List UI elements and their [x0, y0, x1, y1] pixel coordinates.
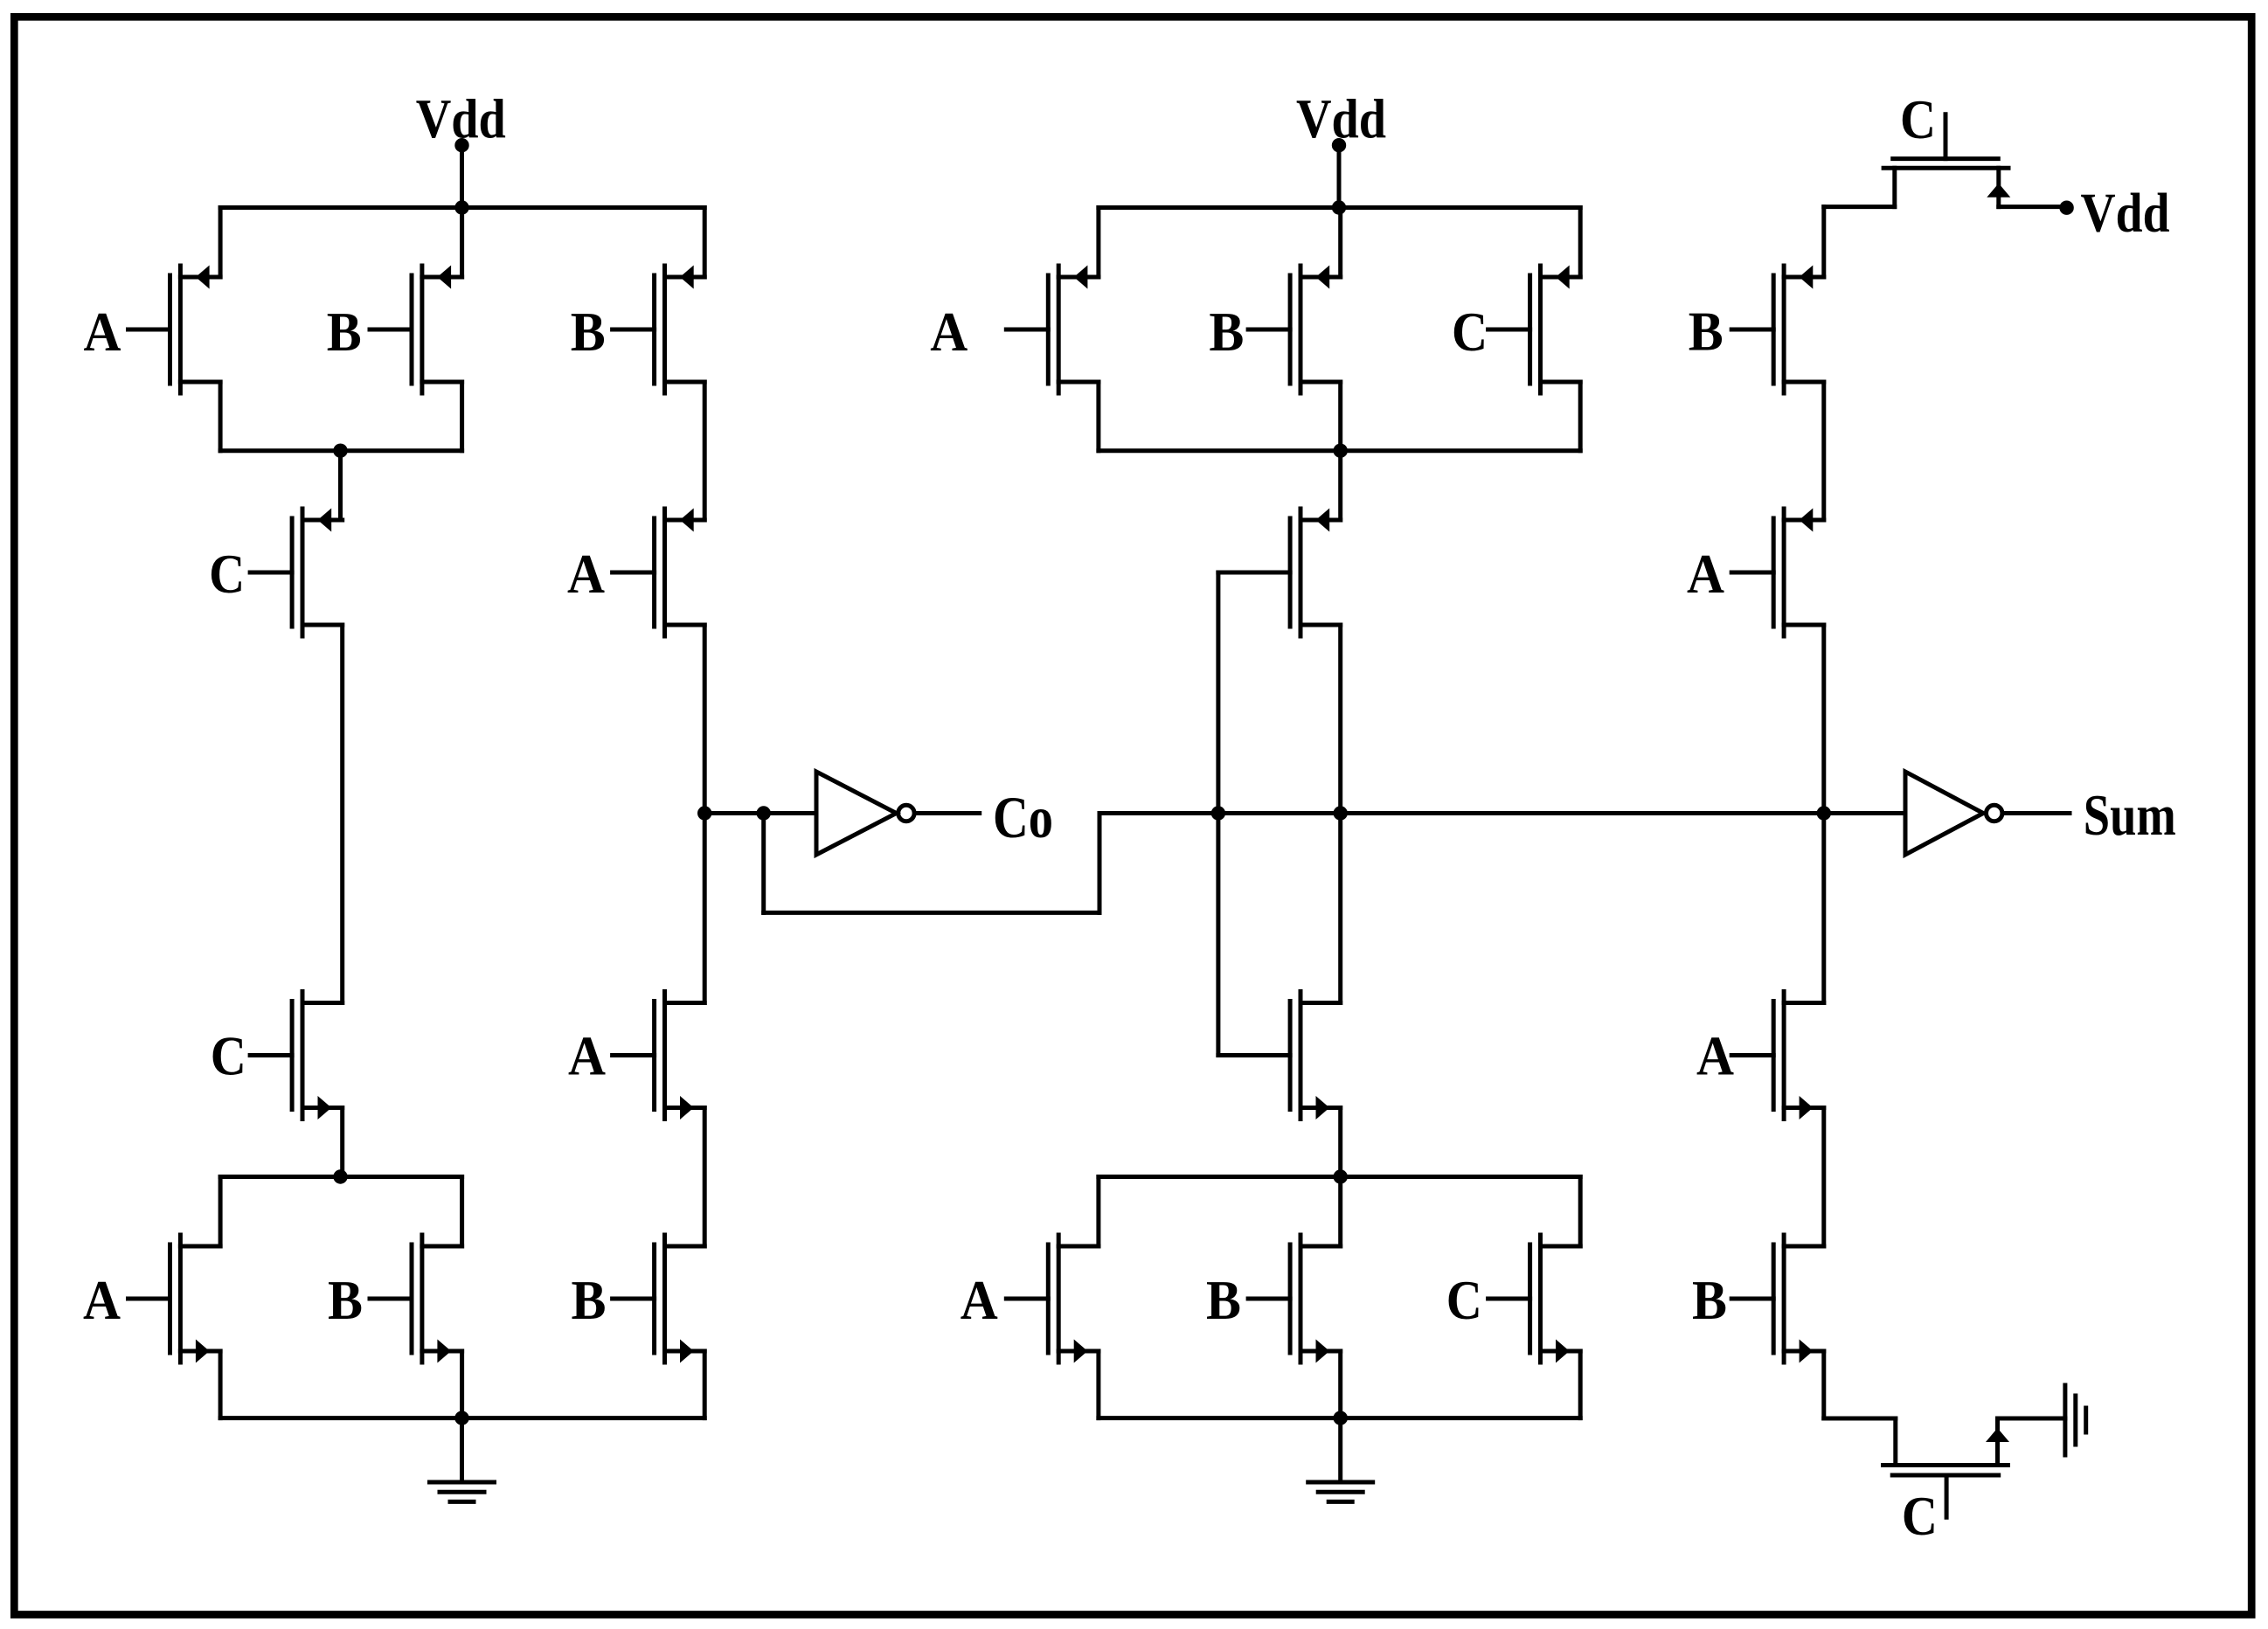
power label Vdd (right): [2081, 182, 2170, 244]
wire U1 output: [916, 811, 980, 815]
wire top Vdd rail (middle block): [1099, 205, 1580, 210]
label B (M2 gate): [327, 301, 362, 363]
wire M20 drain stub down to sum-bar node: [1821, 625, 1826, 814]
node carry-bar horizontal wire: [704, 811, 816, 815]
inverter U2 bubble: [1987, 805, 2002, 821]
transistor PMOS M14 pass (gate from carry-bar): [1218, 509, 1341, 637]
wire M7 source stub to rail: [703, 208, 707, 278]
junction dot NMOS wire (left): [333, 1169, 347, 1183]
svg-text:A: A: [1687, 543, 1724, 605]
svg-text:C: C: [1902, 1485, 1938, 1547]
transistor PMOS M7 gate B (carry column): [613, 266, 705, 394]
wire M3 drain long vertical to M4: [340, 625, 344, 1003]
junction dot Vdd rail (middle block): [1332, 200, 1346, 214]
wire M8 drain to carry-bar node: [703, 625, 707, 814]
svg-text:Vdd: Vdd: [2081, 182, 2170, 244]
svg-text:B: B: [1689, 300, 1724, 362]
transistor NMOS M10 gate B (carry column): [613, 1235, 705, 1363]
svg-text:B: B: [1209, 301, 1244, 363]
label C (M4 gate): [211, 1025, 246, 1087]
svg-text:B: B: [328, 1269, 363, 1331]
wire M5 drain stub to NMOS wire: [218, 1177, 223, 1247]
wire M16 drain stub to NMOS wire: [1096, 1177, 1100, 1247]
wire M11 source stub to rail: [1096, 208, 1100, 278]
transistor NMOS M18 gate C (sum pull-down trio): [1488, 1235, 1581, 1363]
Vdd terminal dot (left block): [454, 138, 468, 152]
wire M6 source stub to bottom rail: [460, 1351, 464, 1418]
label A (M5 gate): [83, 1269, 121, 1331]
wire M19 drain stub to M20: [1821, 382, 1826, 520]
label C (M23 gate): [1900, 88, 1936, 150]
wire top Vdd rail (left block): [220, 205, 704, 210]
svg-text:A: A: [83, 1269, 121, 1331]
Vdd terminal dot (right): [2059, 201, 2073, 215]
wire mid node down to M14: [1338, 451, 1342, 520]
wire M2 drain stub to mid wire: [460, 382, 464, 451]
wire bypass horizontal: [764, 911, 1099, 915]
svg-text:B: B: [571, 301, 606, 363]
wire M4 source stub to NMOS wire: [340, 1108, 344, 1177]
transistor NMOS M21 gate A (sum output column): [1731, 992, 1824, 1120]
wire M5 source stub to bottom rail: [218, 1351, 223, 1418]
label A (M1 gate): [84, 301, 121, 363]
svg-text:A: A: [961, 1269, 998, 1331]
wire M9 drain stub up to node: [703, 814, 707, 1003]
junction dot Vdd rail (left block): [454, 200, 468, 214]
wire M13 drain stub to mid wire: [1578, 382, 1583, 451]
wire M14 drain stub down to node: [1338, 625, 1342, 814]
svg-text:B: B: [572, 1269, 607, 1331]
junction dot carry-bar at column: [697, 806, 711, 820]
inverter U2 (sum) triangle: [1905, 772, 1983, 855]
transistor PMOS M19 gate B (sum output column): [1731, 266, 1824, 394]
wire M9 source stub to M10: [703, 1108, 707, 1247]
svg-text:Sum: Sum: [2084, 783, 2176, 848]
output label Co: [993, 784, 1053, 850]
junction dot mid node (middle block): [1334, 444, 1348, 458]
transistor NMOS M16 gate A (sum pull-down trio): [1006, 1235, 1099, 1363]
wire NMOS upper wire (left block): [220, 1175, 461, 1179]
wire M6 drain stub to NMOS wire: [460, 1177, 464, 1247]
transistor NMOS M4 gate C (carry series): [250, 992, 343, 1120]
svg-text:B: B: [1206, 1269, 1241, 1331]
wire M13 source stub to rail: [1578, 208, 1583, 278]
label A (M9 gate): [568, 1025, 606, 1087]
transistor PMOS M8 gate A (carry column): [613, 509, 705, 637]
transistor NMOS M15 pass (gate from carry-bar): [1218, 992, 1341, 1120]
wire M2 source stub to rail: [460, 208, 464, 278]
wire bottom rail (left block): [220, 1416, 704, 1420]
transistor NMOS M5 gate A (left pull-down pair): [128, 1235, 221, 1363]
wire M23 right lead to Vdd terminal: [1999, 204, 2060, 209]
wire bottom rail (middle block): [1099, 1416, 1580, 1420]
ground symbol (right, rotated): [2065, 1385, 2086, 1455]
svg-text:Co: Co: [993, 784, 1053, 850]
svg-text:C: C: [1900, 88, 1936, 150]
label B (M6 gate): [328, 1269, 363, 1331]
junction dot bottom rail (middle block): [1334, 1411, 1348, 1425]
label A (M20 gate): [1687, 543, 1724, 605]
junction dot sum-bar node: [1817, 806, 1831, 820]
wire mid node of left pull-up pair: [220, 448, 461, 453]
svg-text:C: C: [1446, 1269, 1482, 1331]
svg-text:C: C: [209, 543, 245, 605]
wire M19 source stub up to C-pass elbow: [1821, 207, 1826, 277]
label C (M13 gate): [1452, 301, 1488, 363]
wire M18 drain stub to NMOS wire: [1578, 1177, 1583, 1247]
wire M12 source stub to rail: [1338, 208, 1342, 278]
transistor PMOS M1 gate A (left pull-up pair): [128, 266, 221, 394]
wire mid node down to M3: [338, 451, 343, 520]
transistor NMOS M9 gate A (carry column): [613, 992, 705, 1120]
label C (M3 gate): [209, 543, 245, 605]
transistor PMOS M23 pass gate C (horizontal, to Vdd): [1883, 114, 2010, 207]
wire M17 drain stub to NMOS wire: [1338, 1177, 1342, 1247]
svg-text:A: A: [84, 301, 121, 363]
wire M7 drain stub to M8: [703, 382, 707, 520]
wire M24 right lead to ground: [1998, 1417, 2065, 1421]
wire M23 left lead to column: [1824, 204, 1895, 209]
output label Sum: [2084, 783, 2176, 848]
svg-text:A: A: [568, 1025, 606, 1087]
junction dot mid node (left): [333, 444, 347, 458]
transistor PMOS M2 gate B (left pull-up pair): [370, 266, 462, 394]
label B (M17 gate): [1206, 1269, 1241, 1331]
ground symbol (middle block): [1308, 1418, 1373, 1502]
junction dot carry-bar at inverter tap: [757, 806, 771, 820]
junction dot pass drain at node: [1334, 806, 1348, 820]
svg-text:C: C: [1452, 301, 1488, 363]
transistor NMOS M6 gate B (left pull-down pair): [370, 1235, 462, 1363]
label B (M12 gate): [1209, 301, 1244, 363]
wire M21 drain stub up to sum-bar node: [1821, 814, 1826, 1003]
wire carry-bar line to sum block: [1099, 811, 1905, 815]
label B (M22 gate): [1692, 1269, 1727, 1331]
power label Vdd (left block): [416, 87, 506, 149]
power label Vdd (middle block): [1296, 87, 1386, 149]
transistor PMOS M3 gate C (carry series): [250, 509, 343, 637]
label B (M10 gate): [572, 1269, 607, 1331]
wire Vdd to top rail (left block): [460, 145, 464, 207]
wire U2 output: [2005, 811, 2070, 815]
inverter U1 bubble: [898, 805, 914, 821]
inverter U1 (carry) triangle: [816, 772, 897, 855]
wire pass gates vertical: [1216, 572, 1220, 1056]
label A (M16 gate): [961, 1269, 998, 1331]
wire M16 source stub to bottom rail: [1096, 1351, 1100, 1418]
label C (M24 gate): [1902, 1485, 1938, 1547]
wire M10 source stub to bottom rail: [703, 1351, 707, 1418]
wire M18 source stub to bottom rail: [1578, 1351, 1583, 1418]
wire bypass down from node: [761, 814, 766, 913]
wire Vdd to top rail (middle block): [1337, 145, 1342, 207]
label B (M7 gate): [571, 301, 606, 363]
wire NMOS upper wire (middle block): [1099, 1175, 1580, 1179]
junction dot bottom rail (left): [454, 1411, 468, 1425]
label B (M19 gate): [1689, 300, 1724, 362]
wire M22 source stub down to staircase: [1821, 1351, 1826, 1418]
label A (M8 gate): [567, 543, 605, 605]
wire M12 drain stub to mid wire: [1338, 382, 1342, 451]
wire M1 source stub to rail: [218, 208, 223, 278]
wire M21 source stub to M22: [1821, 1108, 1826, 1247]
wire mid node (middle block): [1099, 448, 1580, 453]
transistor NMOS M24 pass gate C (horizontal, to ground): [1883, 1418, 2010, 1517]
wire M17 source stub to bottom rail: [1338, 1351, 1342, 1418]
label C (M18 gate): [1446, 1269, 1482, 1331]
wire M15 drain stub up to node: [1338, 814, 1342, 1003]
svg-text:A: A: [567, 543, 605, 605]
wire M11 drain stub to mid wire: [1096, 382, 1100, 451]
transistor NMOS M17 gate B (sum pull-down trio): [1248, 1235, 1341, 1363]
junction dot pass gate at node: [1211, 806, 1225, 820]
svg-text:A: A: [930, 301, 968, 363]
transistor PMOS M11 gate A (sum pull-up trio): [1006, 266, 1099, 394]
svg-text:B: B: [327, 301, 362, 363]
wire M15 source stub to NMOS wire: [1338, 1108, 1342, 1177]
Vdd terminal dot (middle block): [1332, 138, 1346, 152]
transistor PMOS M13 gate C (sum pull-up trio): [1488, 266, 1581, 394]
ground symbol (left block): [430, 1418, 495, 1502]
label A (M11 gate): [930, 301, 968, 363]
transistor NMOS M22 gate B (sum output column): [1731, 1235, 1824, 1363]
svg-text:C: C: [211, 1025, 246, 1087]
junction dot NMOS wire (middle block): [1334, 1169, 1348, 1183]
svg-text:A: A: [1696, 1025, 1734, 1087]
transistor PMOS M20 gate A (sum output column): [1731, 509, 1824, 637]
label A (M21 gate): [1696, 1025, 1734, 1087]
wire staircase horizontal to M24: [1824, 1417, 1896, 1421]
wire bypass up to sum-side line: [1098, 814, 1102, 913]
wire M1 drain stub to mid wire: [218, 382, 223, 451]
transistor PMOS M12 gate B (sum pull-up trio): [1248, 266, 1341, 394]
svg-text:B: B: [1692, 1269, 1727, 1331]
